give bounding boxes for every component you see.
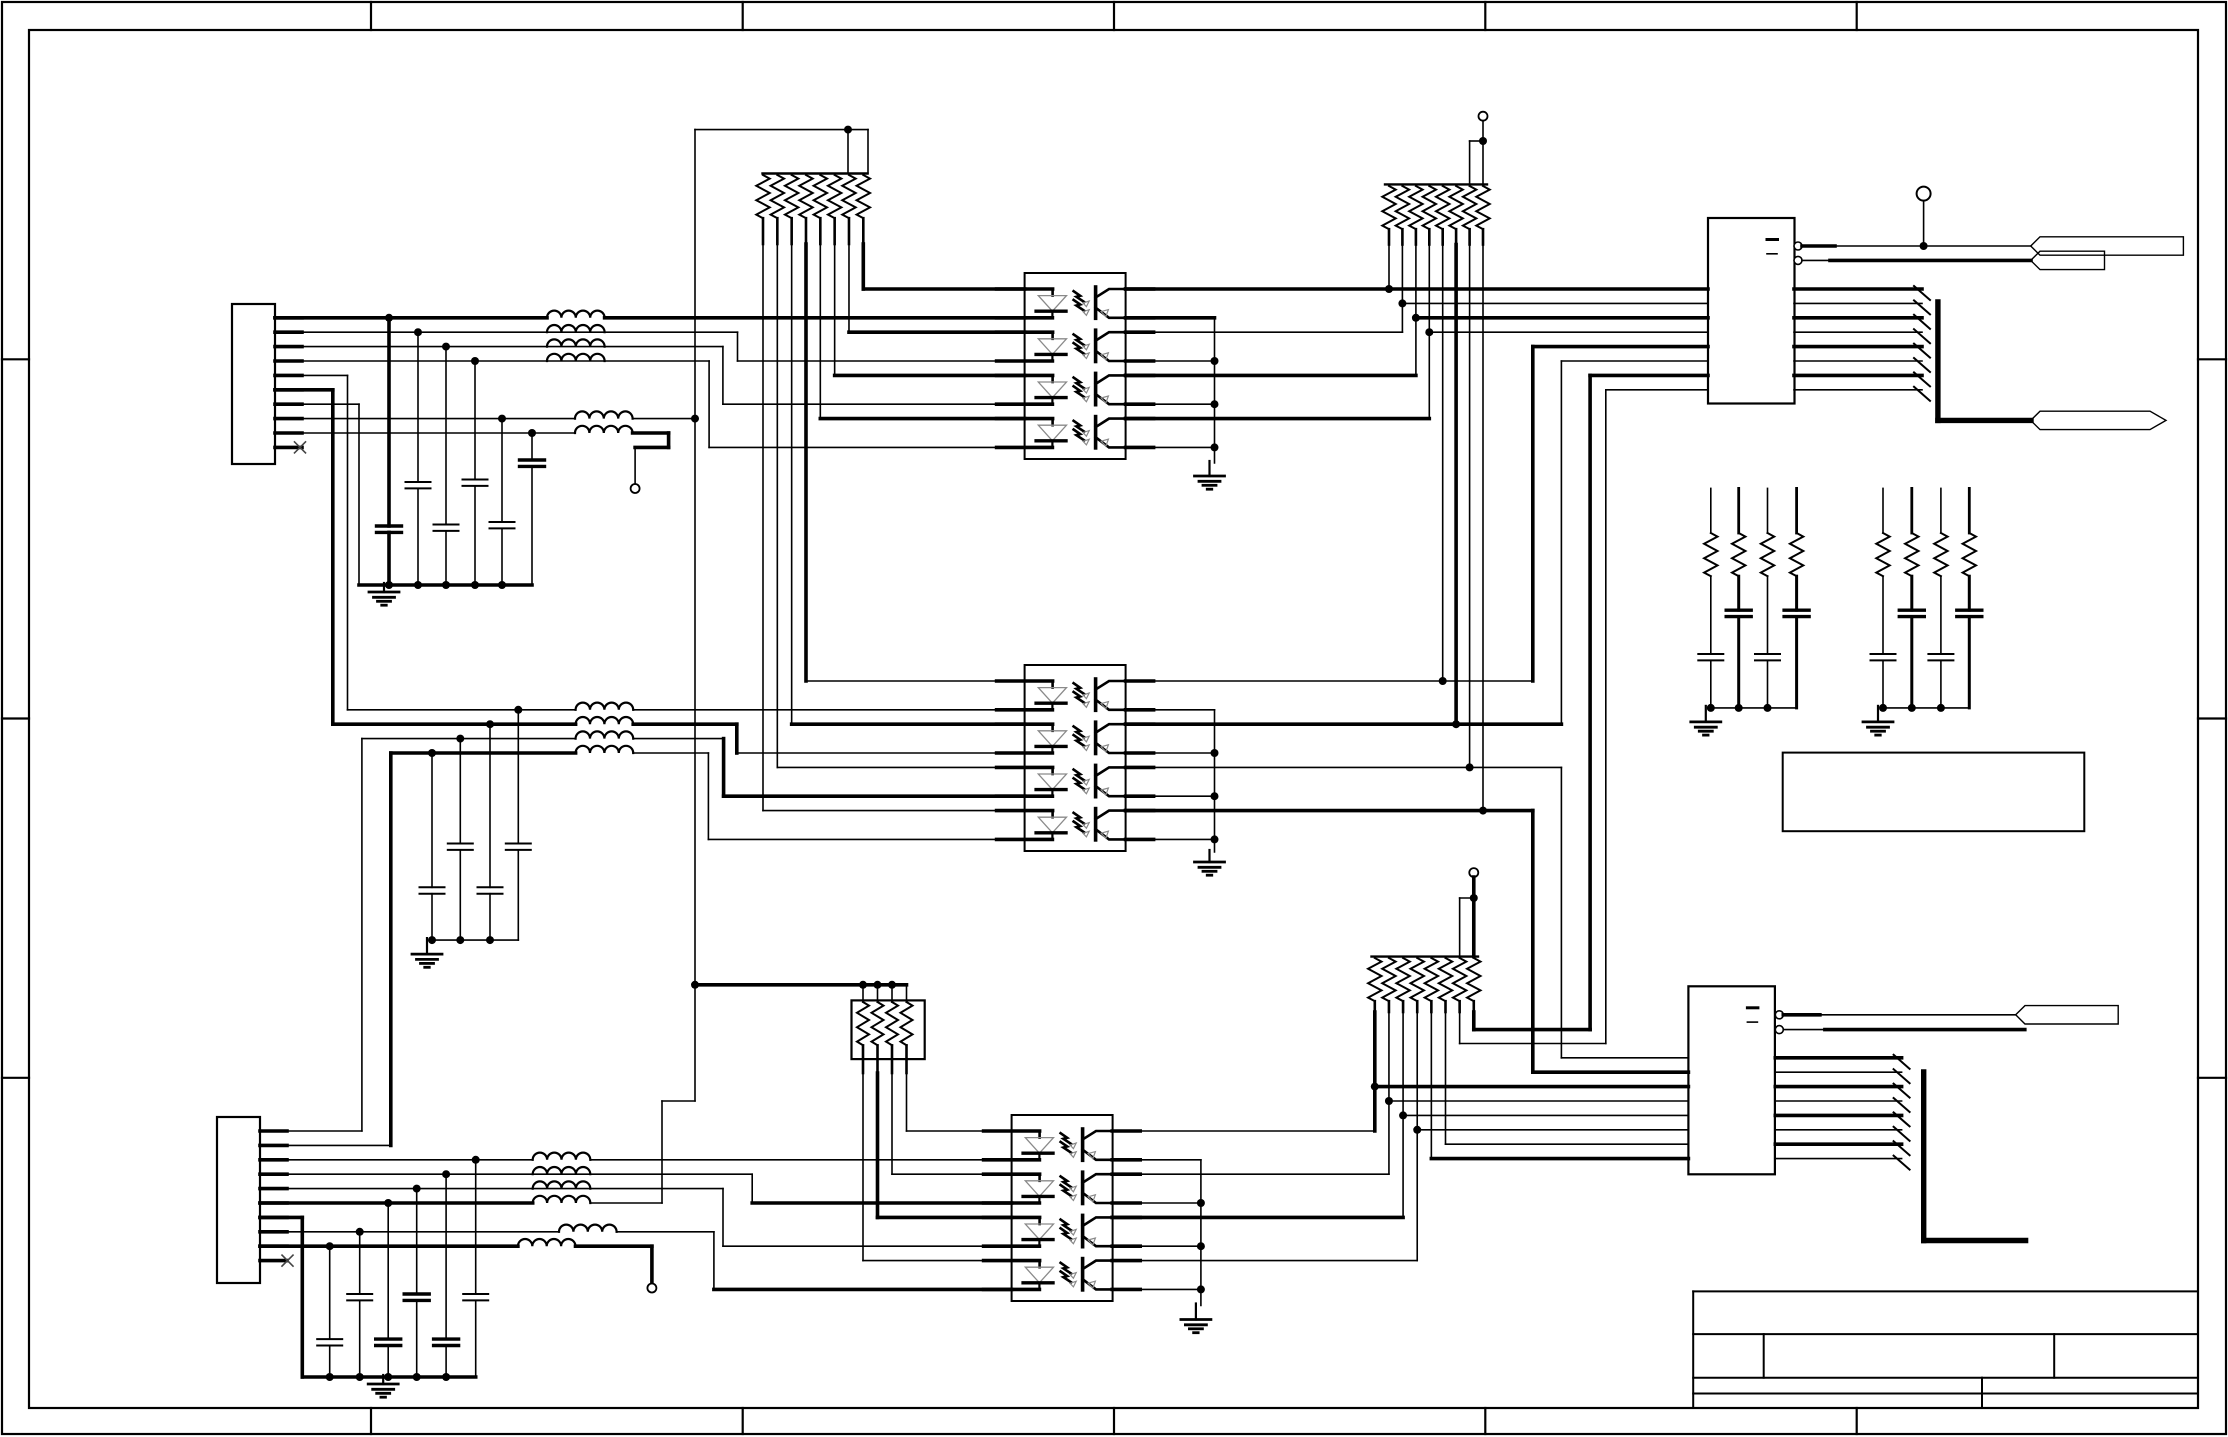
U5 right pin rows to bus	[1775, 1056, 1901, 1060]
wire L16 to test point	[576, 1244, 652, 1248]
junction pullup R15	[1466, 763, 1474, 771]
junction C8	[486, 720, 494, 728]
LED U3 ch1	[1038, 1131, 1041, 1138]
wire col C10	[431, 753, 433, 887]
LED U2 ch1	[1051, 681, 1054, 688]
connector J2 pin stubs	[260, 1129, 287, 1133]
junction bus	[498, 581, 506, 589]
resistor R1	[756, 175, 769, 218]
LED U2 ch2	[1051, 724, 1054, 731]
ground G4	[1208, 850, 1210, 862]
wire R3 to U2 anode2	[791, 244, 793, 724]
bus entry slash	[1914, 315, 1930, 329]
net flag B1	[2016, 1006, 2119, 1024]
junction bus	[471, 581, 479, 589]
wire bank3 col8 elbow	[1472, 1012, 1476, 1030]
optocoupler U2	[1025, 665, 1126, 851]
wire col C22	[387, 1203, 389, 1339]
capacitor C20	[434, 1337, 459, 1340]
inductor L5	[575, 411, 633, 418]
capacitor C12	[1726, 609, 1751, 612]
wire RN1-4 to U3 anode1	[906, 1073, 908, 1131]
capacitor C19	[463, 1293, 488, 1295]
IC U5	[1688, 986, 1775, 1174]
resistor RN1-4	[906, 985, 908, 1002]
bus entry slash	[1894, 1127, 1910, 1141]
ground G7	[382, 1375, 384, 1384]
LED U1 ch2	[1051, 332, 1054, 339]
wire J2 pin9	[260, 1244, 518, 1248]
phototransistor U2 ch4	[1094, 809, 1098, 840]
capacitor C13	[1755, 653, 1780, 655]
capacitor C9	[448, 843, 473, 845]
bottom cap ground bus	[302, 1375, 475, 1379]
border zone ticks top	[370, 2, 372, 30]
wire mid row1	[348, 709, 576, 711]
junction out1 test	[1920, 242, 1928, 250]
wire J1 pin8 row	[275, 418, 575, 420]
wire R1 to U2 anode4	[762, 244, 764, 811]
junction emitter bus	[1211, 835, 1219, 843]
capacitor C16	[1899, 609, 1924, 612]
title block frame	[1693, 1290, 2198, 1292]
junction pullup R27	[1399, 1111, 1407, 1119]
inductor L1	[547, 311, 605, 318]
light arrows U2 ch3	[1074, 770, 1085, 781]
capacitor C7	[506, 843, 531, 845]
resistor R19	[1761, 533, 1774, 576]
wire VCC drop to R bus a	[847, 130, 849, 174]
wire RC net g1c1	[1710, 488, 1712, 533]
net flag bus A	[2031, 411, 2166, 429]
wire col C1	[387, 318, 391, 526]
junction bus	[413, 1373, 421, 1381]
ground G1	[383, 583, 385, 592]
inductor L4	[547, 354, 605, 361]
inductor L16	[518, 1239, 576, 1246]
light arrows U3 ch2	[1061, 1176, 1072, 1187]
junction pullup R14	[1452, 720, 1460, 728]
light arrows U1 ch4	[1074, 421, 1085, 432]
phototransistor U1 ch3	[1094, 373, 1098, 404]
junction VCC-R bank feed	[844, 126, 852, 134]
wire U3 ch3 out to U5 pin5	[1112, 1216, 1403, 1220]
resistor R11	[1409, 186, 1422, 229]
junction bus	[486, 936, 494, 944]
phototransistor U3 ch4	[1081, 1259, 1085, 1290]
resistor bank1 top bus	[763, 172, 868, 174]
junction bus	[1707, 704, 1715, 712]
bus entry slash	[1914, 286, 1930, 300]
resistor R29	[1425, 958, 1438, 1001]
junction emitter bus	[1197, 1285, 1205, 1293]
wire R4 to U2 anode1	[804, 244, 808, 681]
inductor L10	[576, 746, 634, 753]
wire mid row4	[391, 751, 576, 755]
phototransistor U2 ch2	[1094, 722, 1098, 753]
connector J2	[217, 1117, 260, 1283]
resistor R15	[1463, 186, 1476, 229]
bus entry slash	[1894, 1141, 1910, 1155]
wire VCC top rail	[695, 129, 868, 131]
wire bank3 pullup feed	[1472, 877, 1476, 957]
U4 output bubbles	[1794, 242, 1802, 250]
wire J2 pin1	[260, 1130, 362, 1132]
title block divider c	[1981, 1378, 1983, 1408]
border zone ticks left	[2, 358, 29, 360]
wire bank3 col6 to U5 pin7	[1445, 1012, 1447, 1144]
wire J2 pin3	[260, 1159, 533, 1161]
resistor R21	[1876, 533, 1889, 576]
capacitor C5	[490, 521, 515, 523]
LED U2 ch3 pin stubs	[997, 766, 1053, 770]
wire pin4 down to U1 cathode4	[708, 361, 710, 447]
wire bank3 col7 elbow	[1459, 1012, 1461, 1044]
junction emitter bus	[1197, 1242, 1205, 1250]
junction C9	[456, 735, 464, 743]
junction col C6	[528, 429, 536, 437]
wire row4 to U4	[1429, 331, 1708, 333]
connector J1 pin stubs	[275, 316, 302, 320]
bus U4 thick L	[1935, 302, 1940, 420]
wire col C9	[459, 739, 461, 844]
wire L1 to U1 cathode1	[605, 316, 1025, 320]
wire L5 to VCC rail	[633, 418, 695, 420]
junction bus	[326, 1373, 334, 1381]
LED U3 ch1 pin stubs	[984, 1129, 1040, 1133]
wire bank2 pullup feed	[1482, 121, 1484, 185]
net flag A2	[2031, 251, 2105, 269]
LED U1 ch1	[1051, 289, 1054, 296]
resistor R14	[1449, 186, 1462, 229]
wire col C4	[474, 361, 476, 480]
inductor L13	[533, 1181, 591, 1188]
wire R5 to U1 anode4	[819, 244, 821, 419]
light arrows U1 ch1	[1074, 291, 1085, 302]
wire stair to U2 cathode3	[633, 738, 723, 740]
bus U5 thick L	[1921, 1072, 1926, 1241]
terminal TP3 circle	[647, 1284, 656, 1293]
light arrows U2 ch1	[1074, 683, 1085, 694]
wire RC net g2c1	[1882, 488, 1884, 533]
junction C22	[384, 1199, 392, 1207]
resistor RN1-3	[891, 985, 893, 1002]
wire col C6	[531, 433, 533, 460]
resistor R16	[1476, 186, 1489, 229]
phototransistor U2 ch1	[1094, 679, 1098, 710]
wire U1 ch3 out	[1126, 374, 1416, 378]
phototransistor U1 ch2	[1094, 330, 1098, 361]
junction pullup R16	[1479, 807, 1487, 815]
capacitor C21	[404, 1292, 429, 1295]
wire J2 pin2 riser	[389, 753, 393, 1145]
wire to U3 cathode4	[617, 1231, 714, 1233]
resistor R24	[1963, 533, 1976, 576]
ground G6	[1877, 706, 1879, 722]
wire R2 to U2 anode3	[776, 244, 778, 767]
junction C7	[514, 706, 522, 714]
inductor L9	[576, 731, 634, 738]
junction pullup R13	[1439, 677, 1447, 685]
wire col C20	[445, 1174, 447, 1339]
net flag A1	[2031, 237, 2184, 255]
light arrows U3 ch1	[1061, 1133, 1072, 1144]
resistor bank3 top bus	[1372, 955, 1479, 957]
terminal bank2 circle	[1479, 112, 1488, 121]
wire mid row3	[362, 738, 576, 740]
bus entry slash	[1894, 1098, 1910, 1112]
junction C19	[472, 1156, 480, 1164]
LED U3 ch3 pin stubs	[984, 1216, 1040, 1220]
wire U2 emitter bus to ground	[1126, 709, 1215, 711]
wire col C19	[475, 1160, 477, 1294]
capacitor C8	[478, 886, 503, 888]
U3 right pin stubs	[1112, 1129, 1140, 1133]
light arrows U2 ch4	[1074, 813, 1085, 824]
LED U2 ch4 pin stubs	[997, 809, 1053, 813]
terminal TP1 open circle	[631, 484, 640, 493]
ground G2	[1208, 461, 1210, 476]
phototransistor U3 ch3	[1081, 1215, 1085, 1246]
light arrows U1 ch3	[1074, 378, 1085, 389]
junction bus	[456, 936, 464, 944]
wire col C24	[329, 1246, 331, 1339]
U5 output bubbles	[1775, 1011, 1783, 1019]
LED U3 ch2 pin stubs	[984, 1172, 1040, 1176]
LED U3 ch4 pin stubs	[984, 1259, 1040, 1263]
junction C20	[442, 1170, 450, 1178]
inductor L8	[576, 717, 634, 724]
capacitor C10	[420, 886, 445, 888]
resistor RN1-2	[877, 985, 879, 1002]
capacitor C3	[434, 524, 459, 526]
U4 right pin rows to bus	[1794, 287, 1922, 291]
wire RC net g1c3	[1767, 488, 1769, 533]
wire to U2 cathode4	[633, 752, 708, 754]
wire L6 jog to test point	[633, 431, 669, 435]
LED U1 ch1 pin stubs	[997, 287, 1053, 291]
wire col C5	[501, 419, 503, 522]
resistor R8	[857, 175, 870, 218]
junction bus	[442, 1373, 450, 1381]
resistor network RN1 box	[852, 1000, 925, 1059]
resistor R32	[1467, 958, 1480, 1001]
junction pin8-VCC	[691, 415, 699, 423]
resistor bank2 top bus	[1385, 183, 1487, 185]
wire J1 pin3 row	[275, 346, 723, 348]
bus entry slash	[1894, 1156, 1910, 1170]
wire stair pin3 to U1 cathode3	[722, 347, 724, 405]
ground G3	[426, 938, 428, 954]
resistor R7	[842, 175, 855, 218]
junction VCC rail	[691, 981, 699, 989]
capacitor C18	[1957, 609, 1982, 612]
junction emitter bus	[1211, 792, 1219, 800]
junction pullup R9	[1385, 285, 1393, 293]
wire U5 out2	[1783, 1029, 1825, 1031]
bus entry slash	[1894, 1084, 1910, 1098]
resistor R18	[1732, 533, 1745, 576]
wire pin5 down to mid row1	[347, 375, 349, 709]
wire U2 ch2 out to U4 pin6	[1561, 360, 1708, 362]
wire VCC drop to R bus b	[867, 130, 869, 174]
wire J2 pin5	[260, 1188, 723, 1190]
LED U1 ch4	[1051, 419, 1054, 426]
capacitor C24	[317, 1338, 342, 1340]
light arrows U2 ch2	[1074, 726, 1085, 737]
wire U5 out1	[1783, 1013, 1820, 1017]
LED U2 ch3	[1051, 767, 1054, 774]
LED U3 ch2	[1038, 1174, 1041, 1181]
wire col C21	[416, 1189, 418, 1294]
bus entry slash	[1894, 1112, 1910, 1126]
title block divider b	[2053, 1334, 2055, 1378]
resistor R25	[1368, 958, 1381, 1001]
resistor R30	[1439, 958, 1452, 1001]
resistor R10	[1396, 186, 1409, 229]
wire U1 ch4 out	[1126, 417, 1430, 421]
junction emitter bus	[1211, 443, 1219, 451]
resistor R4	[799, 175, 812, 218]
junction bus	[428, 936, 436, 944]
wire J1 pin4 row	[275, 360, 709, 362]
wire U4 out1	[1802, 244, 1835, 248]
inductor L12	[533, 1167, 591, 1174]
junction bus	[1908, 704, 1916, 712]
wire U2 ch3 out down to U5 pin1	[1126, 766, 1562, 768]
capacitor C1	[377, 524, 402, 527]
junction C21	[413, 1185, 421, 1193]
wire col C2	[417, 332, 419, 482]
wire RC net g2c2	[1910, 488, 1913, 533]
resistor R17	[1704, 533, 1717, 576]
wire U3 ch1 out to U5 pin3	[1112, 1130, 1375, 1132]
junction bus	[442, 581, 450, 589]
wire pin7 down to cap bus	[358, 404, 360, 585]
wire R7 to U1 anode2	[848, 244, 850, 332]
wire J2 pin8	[260, 1231, 559, 1233]
border zone ticks bottom	[370, 1408, 372, 1434]
wire bank3 col7 to U4 pin8	[1606, 389, 1708, 391]
wire J2 pin7 to cap bus	[260, 1216, 302, 1220]
junction bus	[1735, 704, 1743, 712]
label box	[1783, 753, 2085, 832]
LED U2 ch2 pin stubs	[997, 722, 1053, 726]
light arrows U3 ch3	[1061, 1220, 1072, 1231]
wire RC net g1c4	[1795, 488, 1798, 533]
no-connect X J1 pin10	[295, 442, 306, 453]
resistor R2	[771, 175, 784, 218]
resistor R12	[1423, 186, 1436, 229]
capacitor C4	[463, 479, 488, 481]
resistor R28	[1411, 958, 1424, 1001]
wire J1 pin9 row	[275, 432, 575, 434]
wire col C7	[517, 710, 519, 844]
junction bus	[384, 1373, 392, 1381]
resistor R13	[1436, 186, 1449, 229]
wire U1 ch1 out to U4	[1126, 287, 1708, 291]
wire J1 pin7 row	[275, 403, 359, 405]
wire U2 ch1 out to U4 pin5	[1533, 345, 1708, 349]
junction RN1 feed	[888, 981, 896, 989]
resistor R5	[814, 175, 827, 218]
wire RC net g2c3	[1940, 488, 1942, 533]
connector J1	[232, 304, 275, 464]
optocoupler U3	[1012, 1115, 1113, 1301]
wire U4 out2	[1802, 259, 1830, 261]
phototransistor U2 ch3	[1094, 765, 1098, 796]
inductor L6	[575, 426, 633, 433]
wire RN1-3 to U3 anode2	[891, 1073, 893, 1174]
resistor R22	[1905, 533, 1918, 576]
wire col C23	[359, 1232, 361, 1294]
wire RC net g1c2	[1737, 488, 1740, 533]
LED U1 ch3	[1051, 375, 1054, 382]
inductor L11	[533, 1153, 591, 1160]
LED U2 ch4	[1051, 811, 1054, 818]
junction pullup R25	[1371, 1083, 1379, 1091]
junction pullup R10	[1398, 299, 1406, 307]
bus entry slash	[1914, 372, 1930, 386]
wire RN1-1 to U3 anode4	[862, 1073, 864, 1261]
wire J2 pin6 VCC	[260, 1201, 533, 1205]
wire pin6 down to mid row2	[331, 390, 335, 724]
resistor R9	[1382, 186, 1395, 229]
wire J1 pin1 net RX0+ row	[275, 316, 547, 320]
bus entry slash	[1914, 300, 1930, 314]
wire U1 ch2 out	[1126, 331, 1403, 333]
wire J1 pin6 row	[275, 388, 333, 392]
IC U4	[1708, 218, 1795, 404]
wire stair to U3 cathode2	[751, 1174, 753, 1203]
junction col C5	[498, 415, 506, 423]
capacitor C6	[520, 458, 545, 461]
LED U3 ch3	[1038, 1217, 1041, 1224]
LED U2 ch1 pin stubs	[997, 679, 1053, 683]
wire U3 ch4 out to U5 pin6	[1112, 1260, 1417, 1262]
junction col C3	[442, 343, 450, 351]
junction RN1 feed	[874, 981, 882, 989]
wire row2 to U4	[1402, 302, 1708, 304]
junction pullup R12	[1425, 328, 1433, 336]
wire U2 ch4 out down to U5 pin2	[1126, 809, 1533, 813]
resistor R27	[1396, 958, 1409, 1001]
resistor R3	[785, 175, 798, 218]
bus entry slash	[1914, 329, 1930, 343]
wire J2 pin1 riser	[361, 739, 363, 1131]
capacitor C14	[1784, 609, 1809, 612]
wire J1 pin5 row	[275, 374, 348, 376]
light arrows U3 ch4	[1061, 1263, 1072, 1274]
wire mid row2	[333, 722, 576, 726]
wire L7 to U2 cathode1	[633, 709, 1024, 711]
terminal bank3 circle	[1469, 868, 1478, 877]
junction emitter bus	[1211, 357, 1219, 365]
no-connect X J2 pin10	[282, 1255, 293, 1266]
junction C23	[356, 1228, 364, 1236]
bus entry slash	[1914, 344, 1930, 358]
capacitor C23	[347, 1293, 372, 1295]
LED U1 ch2 pin stubs	[997, 330, 1053, 334]
LED U1 ch3 pin stubs	[997, 374, 1053, 378]
wire J1 pin2 row	[275, 331, 738, 333]
RC ground bus g1	[1711, 707, 1797, 709]
bus entry slash	[1894, 1069, 1910, 1083]
wire bank3 col5 to U5 pin8	[1430, 1012, 1432, 1159]
junction emitter bus	[1211, 400, 1219, 408]
wire R8 to U1 anode1	[862, 244, 866, 289]
LED U1 ch4 pin stubs	[997, 417, 1053, 421]
